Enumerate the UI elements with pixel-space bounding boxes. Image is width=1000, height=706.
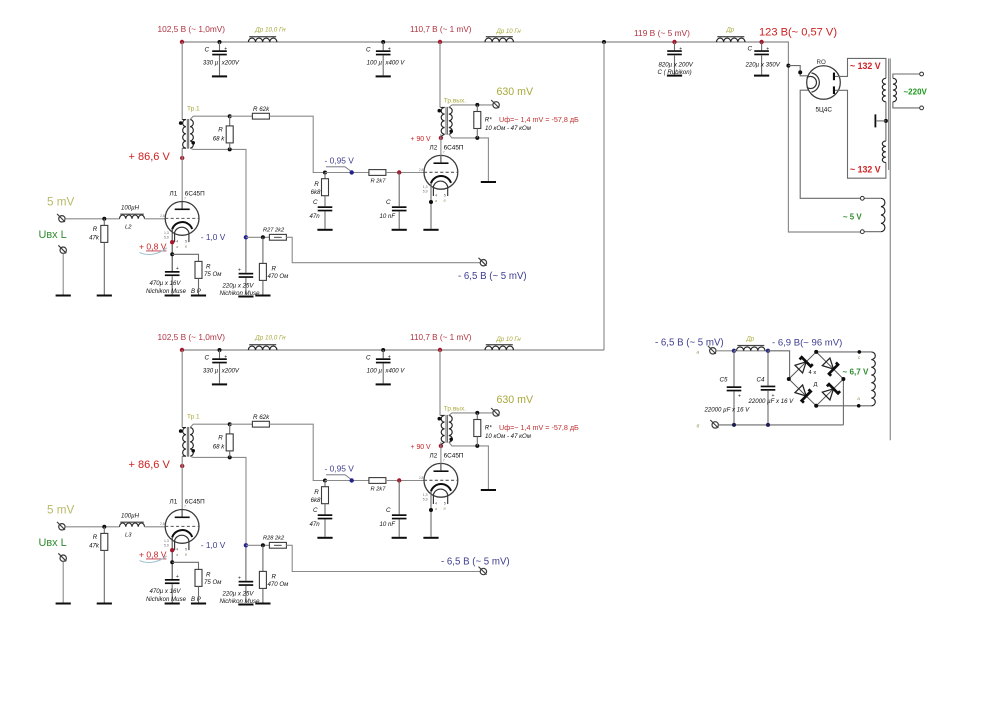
center tap chassis bar (877, 120, 886, 122)
channel 1 (upper, left channel) (39, 24, 605, 298)
svg-text:~ 132 V: ~ 132 V (850, 164, 881, 174)
wire: B+ feed down to channel 2 (603, 42, 605, 350)
node: C4 bottom (766, 423, 770, 427)
terminal: ch2 -6,5V (479, 567, 487, 575)
node: bridge top (814, 350, 818, 354)
wire: HV center section (885, 102, 887, 141)
svg-text:R28 2k2: R28 2k2 (263, 535, 285, 541)
svg-text:C: C (748, 46, 753, 53)
choke Др (final filter) (717, 36, 745, 42)
wire: heater return rail (719, 424, 844, 426)
node: bridge left (787, 377, 791, 381)
wire: B+ rail right section (604, 42, 860, 232)
svg-text:- 6,9 В(~ 96 mV): - 6,9 В(~ 96 mV) (772, 337, 842, 348)
wire: bridge AC bottom to 6,7V winding (816, 405, 871, 407)
wire: bridge AC top to 6,7V winding (816, 351, 871, 353)
node: 123V red node (759, 40, 763, 44)
svg-text:б: б (697, 424, 700, 430)
node: 119V red node (672, 40, 676, 44)
node: bridge bottom (814, 404, 818, 408)
svg-text:R27 2k2: R27 2k2 (263, 227, 285, 233)
svg-text:- 6,5 В (~ 5 mV): - 6,5 В (~ 5 mV) (441, 556, 510, 567)
resistor R28 body (269, 542, 286, 548)
resistor R27 body (269, 234, 286, 240)
choke Др (heater filter) (737, 345, 765, 351)
capacitor 820µ x 200V (Rubikon) (674, 42, 676, 50)
wire: under heater choke (734, 350, 768, 352)
6,7V heater winding (871, 352, 875, 406)
svg-text:- 6,5 В (~ 5 mV): - 6,5 В (~ 5 mV) (655, 337, 724, 348)
node: winding pin a (857, 404, 861, 408)
svg-text:а: а (857, 397, 860, 402)
svg-text:~220V: ~220V (904, 88, 928, 97)
svg-text:~ 132 V: ~ 132 V (850, 61, 881, 71)
svg-text:- 6,5 В (~ 5 mV): - 6,5 В (~ 5 mV) (458, 271, 527, 282)
svg-text:119 В (~ 5 mV): 119 В (~ 5 mV) (634, 28, 690, 38)
wire: ch2 heater bias to -6,5V terminal (286, 545, 480, 571)
capacitor 220µ x 350V (761, 42, 763, 50)
svg-text:22000 µF x 16 V: 22000 µF x 16 V (704, 407, 751, 414)
rectifier tube RO 5Ц4С (807, 66, 841, 100)
svg-text:5Ц4С: 5Ц4С (816, 107, 833, 114)
svg-text:~ 5 V: ~ 5 V (843, 212, 862, 221)
wire: -6,9V to bridge minus (768, 351, 790, 379)
svg-text:+: + (738, 394, 741, 400)
power transformer HV winding top (882, 78, 886, 102)
bridge rectifier frame (789, 352, 844, 406)
diode D4 (822, 389, 833, 400)
svg-text:4 x: 4 x (809, 370, 817, 376)
wire: bridge plus to return rail (842, 379, 844, 425)
power transformer HV winding bottom (882, 141, 886, 163)
ground (220µ350V) (754, 75, 769, 77)
wire: ch1 heater bias to -6,5V terminal (286, 237, 480, 262)
svg-text:Др: Др (726, 27, 735, 34)
diode D1 (795, 362, 806, 373)
svg-text:~ 6,7 V: ~ 6,7 V (843, 368, 869, 377)
node: winding pin c (858, 350, 862, 354)
svg-text:C5: C5 (720, 376, 728, 383)
channel 2 (lower, right channel) (39, 332, 605, 606)
transformer core (888, 59, 890, 171)
capacitor C4 22000µF (767, 351, 769, 386)
svg-text:123 В(~ 0,57 V): 123 В(~ 0,57 V) (759, 26, 837, 38)
node: C4 top / -6,9V (766, 349, 770, 353)
svg-text:L2: L2 (125, 224, 132, 230)
power transformer primary 220V (893, 78, 897, 102)
svg-text:220µ x 350V: 220µ x 350V (745, 61, 781, 68)
svg-text:820µ x 200V: 820µ x 200V (659, 61, 694, 68)
svg-text:RO: RO (817, 59, 826, 66)
node: HV center tap (884, 119, 888, 123)
node: C5 bottom (732, 423, 736, 427)
node: C5 top (732, 349, 736, 353)
svg-text:C4: C4 (757, 376, 765, 383)
svg-text:L3: L3 (125, 532, 132, 538)
5V filament winding (881, 198, 885, 231)
ground (820µ) (667, 75, 682, 77)
node: filament stub dot (798, 70, 802, 74)
svg-text:+: + (679, 46, 682, 52)
wire: anode top to HV winding top (835, 58, 886, 78)
svg-text:Д: Д (814, 382, 818, 388)
terminal: ch1 -6,5V (479, 258, 487, 266)
svg-text:22000 µF x 16 V: 22000 µF x 16 V (748, 398, 795, 405)
wire: anode bottom to HV winding bottom (835, 90, 886, 178)
node: bridge right (841, 377, 845, 381)
node: filament B+ junction (786, 64, 790, 68)
wire: filament to 5V top (800, 90, 860, 198)
capacitor C5 22000µF (733, 351, 735, 387)
wire: filament stub (788, 66, 812, 76)
svg-text:Др: Др (746, 335, 755, 342)
diode D2 (822, 358, 833, 369)
node: rail tap to channel 2 (602, 40, 606, 44)
diode D3 (795, 385, 806, 396)
svg-text:+: + (766, 46, 769, 52)
svg-text:а: а (697, 351, 700, 356)
